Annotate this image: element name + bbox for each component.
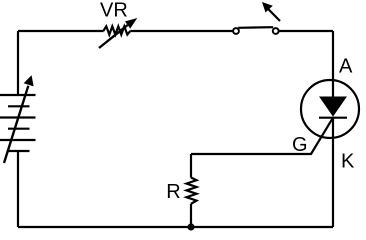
svg-text:G: G bbox=[292, 134, 308, 156]
switch actuation arrow bbox=[262, 2, 280, 21]
variable resistor VR bbox=[103, 26, 130, 34]
SCR triangle (anode-cathode) bbox=[320, 97, 346, 116]
svg-text:K: K bbox=[341, 151, 355, 173]
svg-text:R: R bbox=[166, 181, 180, 203]
SCR cathode bar bbox=[319, 117, 347, 119]
switch S terminal right bbox=[273, 28, 279, 34]
wire top-right horizontal bbox=[279, 30, 333, 32]
battery B plates bbox=[0, 95, 36, 151]
wire left vertical (top of battery) bbox=[17, 31, 19, 95]
resistor R bbox=[187, 178, 197, 204]
wire right vertical (cathode) bbox=[332, 118, 334, 227]
wire top-left horizontal bbox=[18, 30, 104, 32]
wire right vertical (anode) bbox=[332, 31, 334, 98]
switch blade bbox=[238, 26, 273, 29]
svg-text:A: A bbox=[339, 56, 353, 78]
wire top-middle horizontal bbox=[130, 30, 232, 32]
wire bottom horizontal bbox=[18, 226, 333, 228]
svg-text:VR: VR bbox=[100, 0, 128, 22]
VR arrow bbox=[99, 18, 137, 48]
battery variable arrow bbox=[4, 75, 34, 163]
wire gate-to-resistor vertical bbox=[190, 154, 192, 178]
switch S terminal left bbox=[233, 28, 239, 34]
gate wire bbox=[191, 118, 333, 154]
wire left vertical (below battery) bbox=[17, 151, 19, 227]
junction node dot bbox=[187, 223, 194, 230]
wire resistor to bottom bbox=[190, 204, 192, 227]
SCR circle bbox=[301, 80, 359, 138]
